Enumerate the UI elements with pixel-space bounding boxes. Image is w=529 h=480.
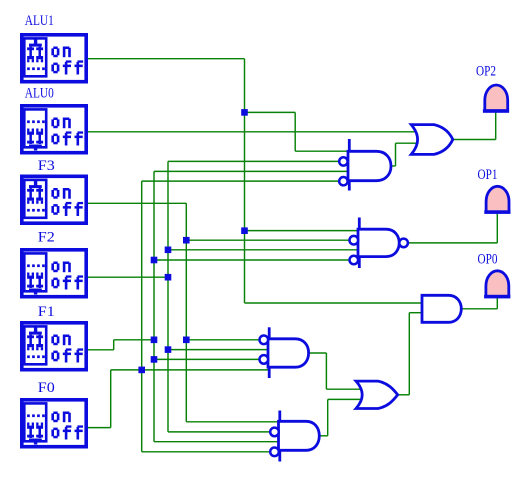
wire net ALU1 into U3 pin1: [245, 230, 360, 232]
junction net ALU1 at (244,231): [241, 227, 248, 234]
LED OP1 dome: [486, 186, 509, 212]
LED OP0 dome: [486, 271, 509, 297]
bubble U7 pin2: [270, 428, 279, 437]
wire ALU0 out to U1 pin1: [88, 131, 416, 133]
switch F0 (down/off): [22, 400, 86, 447]
wire U1 output up to LED OP2: [495, 110, 497, 140]
switch ALU1 (up/on): [22, 35, 86, 82]
wire net F1 vertical trunk: [153, 171, 155, 441]
wire net F2 vertical trunk: [167, 161, 169, 432]
wire F0 out horizontal: [88, 427, 111, 429]
and-gate U2 body: [348, 151, 391, 180]
junction net F1 at (154,359): [151, 356, 158, 363]
wire U7 output up: [327, 399, 329, 435]
switch ALU0 (down/off): [22, 106, 86, 153]
wire net F1 into U7 pin3: [154, 441, 280, 443]
wire ALU1 out horizontal: [88, 58, 245, 60]
wire U5 output into U6 pin1: [326, 388, 362, 390]
wire net F1 into U2 pin3: [154, 170, 349, 172]
wire net F2 into U5 pin2: [168, 349, 269, 351]
bubble U3 pin2: [350, 236, 359, 245]
wire U2 output into U1 pin2: [396, 142, 417, 144]
wire net ALU1 branch right at y=112: [245, 111, 296, 113]
bubble U3 pin4: [350, 256, 359, 265]
wire net F3 vertical trunk: [185, 203, 187, 421]
wire U4 output up to LED OP0: [496, 296, 498, 309]
wire net F2 into U7 pin2: [168, 431, 271, 433]
wire F0 jog up: [110, 370, 112, 428]
junction net F1 at (154,260): [151, 257, 158, 264]
wire net F0 into U2 pin4: [142, 180, 340, 182]
wire F3 out horizontal: [88, 202, 186, 204]
wire U1 output right: [453, 139, 496, 141]
nand-gate U3 body: [358, 229, 399, 256]
bubble U2 pin2: [339, 157, 347, 165]
svg-text:OP1: OP1: [478, 167, 498, 183]
wire net F2 into U2 pin2: [168, 160, 340, 162]
wire U2 output up: [395, 143, 397, 166]
LED OP0 base bar: [484, 295, 510, 299]
bubble U5 pin1: [260, 336, 269, 345]
wire net ALU1 into U4 pin1: [245, 302, 423, 304]
wire net ALU1 vertical trunk: [244, 59, 246, 303]
and-gate U5 input bar: [268, 327, 271, 378]
wire F1 jog right into trunk: [114, 339, 154, 341]
wire U6 output up: [408, 313, 410, 395]
wire net F3 into U7 pin1: [186, 421, 280, 423]
wire U5 output down: [325, 353, 327, 389]
wire net F0 vertical trunk: [141, 181, 143, 452]
or-gate U6 body: [356, 381, 398, 408]
junction net F1 at (154,340): [151, 337, 158, 344]
wire F1 out horizontal: [88, 349, 114, 351]
wire U3 output up to LED OP1: [496, 211, 498, 243]
wire U2 output right: [390, 165, 396, 167]
or-gate U1 body: [411, 125, 453, 155]
svg-text:OP2: OP2: [476, 64, 496, 80]
wire net F3 into U3 pin2: [186, 239, 350, 241]
wire U6 output right: [398, 394, 410, 396]
switch F2 (down/off): [22, 250, 86, 297]
junction net F2 at (168,250): [165, 247, 172, 254]
and-gate U5 body: [268, 339, 309, 367]
wire net F0 into U5 pin4: [111, 369, 269, 371]
switch F3 (up/on): [22, 176, 86, 223]
wire net F2 into U3 pin3: [168, 249, 359, 251]
bubble U7 pin4: [270, 448, 279, 457]
and-gate U7 input bar: [278, 411, 281, 462]
wire U3 output right: [408, 242, 498, 244]
wire F2 out horizontal: [88, 276, 168, 278]
bubble U5 pin3: [260, 355, 269, 364]
and-gate U7 body: [279, 421, 320, 450]
wire U5 output right: [308, 352, 327, 354]
nand-gate U3 input bar: [358, 218, 361, 269]
junction net F3 at (186,240): [183, 237, 190, 244]
wire U7 output right: [320, 435, 328, 437]
wire net F0 into U7 pin4: [142, 451, 271, 453]
svg-text:F0: F0: [38, 380, 55, 396]
junction net F0 at (142,370): [138, 367, 145, 374]
svg-text:F1: F1: [38, 304, 55, 320]
wire net F1 into U5 pin3: [154, 358, 260, 360]
LED OP2 base bar: [483, 109, 509, 113]
LED OP2 dome: [485, 85, 508, 111]
junction net ALU1 at (244,112): [241, 109, 248, 116]
svg-text:ALU0: ALU0: [25, 86, 54, 102]
bubble U2 pin4: [339, 177, 347, 185]
switch F1 (up/on): [22, 323, 86, 370]
wire net ALU1 branch down at x=295: [294, 112, 296, 151]
LED OP1 base bar: [484, 210, 510, 214]
junction net F2 at (168,277): [165, 274, 172, 281]
junction net F2 at (168,350): [165, 346, 172, 353]
wire U7 output into U6 pin2: [328, 398, 362, 400]
wire U4 output right: [461, 308, 497, 310]
svg-text:F3: F3: [38, 158, 55, 174]
svg-text:ALU1: ALU1: [25, 13, 54, 29]
wire F1 jog up: [113, 340, 115, 350]
and-gate U2 input bar: [348, 139, 351, 191]
junction net F3 at (186,340): [183, 337, 190, 344]
and-gate U4 body: [422, 295, 461, 322]
wire net F3 into U5 pin1: [186, 339, 260, 341]
svg-text:F2: F2: [38, 230, 55, 246]
wire U6 output into U4 pin2: [409, 312, 422, 314]
svg-text:OP0: OP0: [478, 252, 498, 268]
wire net ALU1 into U2 pin1: [295, 150, 349, 152]
wire net F1 into U3 pin4: [154, 259, 350, 261]
bubble U3 output: [399, 239, 408, 248]
